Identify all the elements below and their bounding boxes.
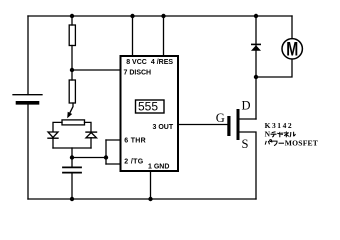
resistor R2 bbox=[69, 80, 75, 103]
junction top rail at pin4 bbox=[161, 14, 165, 18]
wire top rail V+ bbox=[28, 15, 292, 17]
wiper arrow of VR1 bbox=[67, 112, 72, 119]
battery BT1 bbox=[13, 95, 42, 103]
resistor R1 bbox=[69, 25, 75, 46]
wire left battery top bbox=[27, 16, 29, 95]
svg-text:2 /TG: 2 /TG bbox=[124, 159, 143, 166]
diode D1 bbox=[48, 132, 58, 138]
junction top rail at R1 bbox=[70, 14, 74, 18]
label box 555 bbox=[136, 100, 165, 113]
wire source to bottom rail bbox=[240, 132, 257, 199]
diode D3 flyback bbox=[251, 44, 261, 50]
wire drain to channel bbox=[240, 118, 257, 120]
svg-text:G: G bbox=[216, 111, 225, 125]
wire R1 to R2 bbox=[71, 46, 73, 81]
svg-text:S: S bbox=[242, 137, 249, 151]
svg-text:N: N bbox=[265, 130, 271, 139]
wire pin1 GND bbox=[150, 172, 152, 199]
wire pin3 OUT to gate bbox=[179, 124, 227, 126]
wire flyback diode branch bbox=[255, 16, 257, 119]
svg-text:M: M bbox=[286, 39, 298, 60]
label N channel (Japanese) bbox=[265, 130, 296, 139]
svg-text:MOSFET: MOSFET bbox=[285, 139, 318, 148]
wire pot right lead bbox=[85, 122, 92, 131]
wire pot left lead bbox=[53, 122, 62, 131]
svg-text:7 DISCH: 7 DISCH bbox=[124, 69, 152, 76]
wire pin4 RES bbox=[163, 16, 165, 55]
svg-text:6 THR: 6 THR bbox=[124, 137, 146, 144]
svg-text:3 OUT: 3 OUT bbox=[153, 124, 174, 131]
wire D2 to loop bbox=[90, 138, 92, 148]
svg-text:D: D bbox=[242, 99, 251, 113]
junction THR-TG node bbox=[104, 155, 108, 159]
label power MOSFET (Japanese) bbox=[265, 139, 318, 148]
svg-text:1 GND: 1 GND bbox=[148, 164, 169, 171]
motor M1 bbox=[282, 39, 302, 61]
diode D2 bbox=[86, 132, 97, 138]
wire THR-TG vertical bbox=[105, 140, 107, 164]
capacitor C1 bbox=[63, 167, 81, 172]
junction R1-R2 node bbox=[70, 68, 74, 72]
transistor Q1 gate bar bbox=[227, 116, 230, 136]
wire diode loop bottom bbox=[53, 147, 91, 149]
wire top to R1 bbox=[71, 16, 73, 25]
wire pin6 THR stub bbox=[106, 139, 121, 141]
junction top rail at pin8 bbox=[130, 14, 134, 18]
junction cap to rail bbox=[70, 197, 74, 201]
wire left battery bottom bbox=[27, 105, 29, 199]
svg-text:8 VCC: 8 VCC bbox=[126, 59, 147, 66]
op-amp U1 555 body bbox=[121, 56, 179, 171]
transistor Q1 channel bar bbox=[237, 109, 240, 140]
wire motor bottom bbox=[256, 59, 292, 77]
wire center tap down to capacitor bbox=[71, 148, 73, 167]
junction GND to rail bbox=[148, 197, 152, 201]
wire D1 to loop bbox=[52, 139, 54, 148]
wire pin2 TG stub bbox=[106, 163, 121, 165]
svg-text:4 /RES: 4 /RES bbox=[151, 59, 174, 66]
junction top rail at flyback bbox=[254, 14, 258, 18]
potentiometer VR1 body bbox=[62, 120, 85, 125]
junction drain/motor/diode bbox=[254, 75, 258, 79]
junction cap/THR node bbox=[70, 155, 74, 159]
wire node to pin7 DISCH bbox=[72, 69, 121, 71]
wire bottom rail GND bbox=[28, 198, 256, 200]
wire node to THR/TG bbox=[72, 157, 106, 159]
wire motor top bbox=[291, 16, 293, 39]
wire pin8 VCC bbox=[132, 16, 134, 55]
wire capacitor to bottom rail bbox=[71, 174, 73, 200]
wire R2 to wiper arrow bbox=[70, 103, 73, 113]
svg-text:555: 555 bbox=[138, 100, 158, 114]
